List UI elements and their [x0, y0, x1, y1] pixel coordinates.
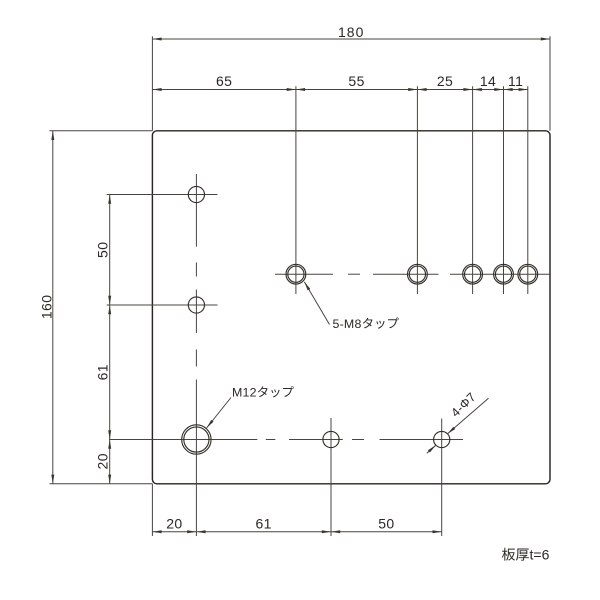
svg-text:M12: M12	[232, 386, 257, 400]
phi7 hole B (left col 2nd)	[188, 297, 204, 313]
bottom dim line 20/61/50	[152, 531, 441, 533]
M8 tapped hole 5	[520, 266, 536, 282]
phi7 hole A (left col top)	[188, 186, 204, 202]
center line left hole column (dash-dot)	[195, 174, 197, 247]
center line bottom hole row (dash-dot)	[109, 439, 257, 441]
svg-text:55: 55	[348, 73, 364, 89]
extension/center line hole row 1	[107, 194, 218, 196]
leader 5-M8 tap	[304, 282, 329, 325]
M12 tapped hole	[184, 427, 209, 452]
dim 160 line	[52, 131, 54, 484]
svg-text:20: 20	[166, 516, 182, 532]
M8 tapped hole 2	[409, 266, 425, 282]
plate outline 180x160	[152, 131, 550, 484]
svg-text:5-M8: 5-M8	[333, 317, 362, 331]
svg-text:50: 50	[378, 516, 394, 532]
svg-text:180: 180	[338, 24, 364, 40]
M8 tapped hole 3	[465, 266, 481, 282]
dim 180 extension lines	[151, 36, 153, 131]
leader M12 tap	[207, 398, 231, 429]
svg-text:61: 61	[94, 364, 110, 380]
dim 50/61/20 line	[109, 195, 111, 484]
svg-text:25: 25	[437, 73, 453, 89]
svg-text:t=6: t=6	[530, 547, 550, 563]
dim 65/55/25/14/11 extension+center lines through top holes	[295, 86, 297, 294]
dim 160 extension lines	[50, 130, 153, 132]
M8 tapped hole 4	[495, 266, 511, 282]
svg-text:50: 50	[94, 242, 110, 258]
leader 4-phi7 diameter	[447, 398, 488, 434]
phi7 hole D (bottom right)	[434, 431, 450, 447]
svg-text:160: 160	[38, 295, 54, 320]
dim 180 line	[152, 38, 550, 40]
note: plate thickness t=6	[502, 548, 515, 561]
extension/center line hole row 2	[107, 304, 218, 306]
center line top hole row (dash-dot)	[275, 273, 333, 275]
dim 65/55/25/14/11 line	[152, 89, 527, 91]
bottom extension lines	[151, 484, 153, 536]
phi7 hole C (bottom mid)	[323, 431, 339, 447]
svg-text:20: 20	[94, 453, 110, 469]
svg-text:65: 65	[216, 73, 232, 89]
svg-text:61: 61	[256, 516, 272, 532]
svg-text:14: 14	[480, 73, 496, 89]
svg-text:11: 11	[508, 73, 523, 89]
M8 tapped hole 1 (65,65)	[288, 266, 304, 282]
